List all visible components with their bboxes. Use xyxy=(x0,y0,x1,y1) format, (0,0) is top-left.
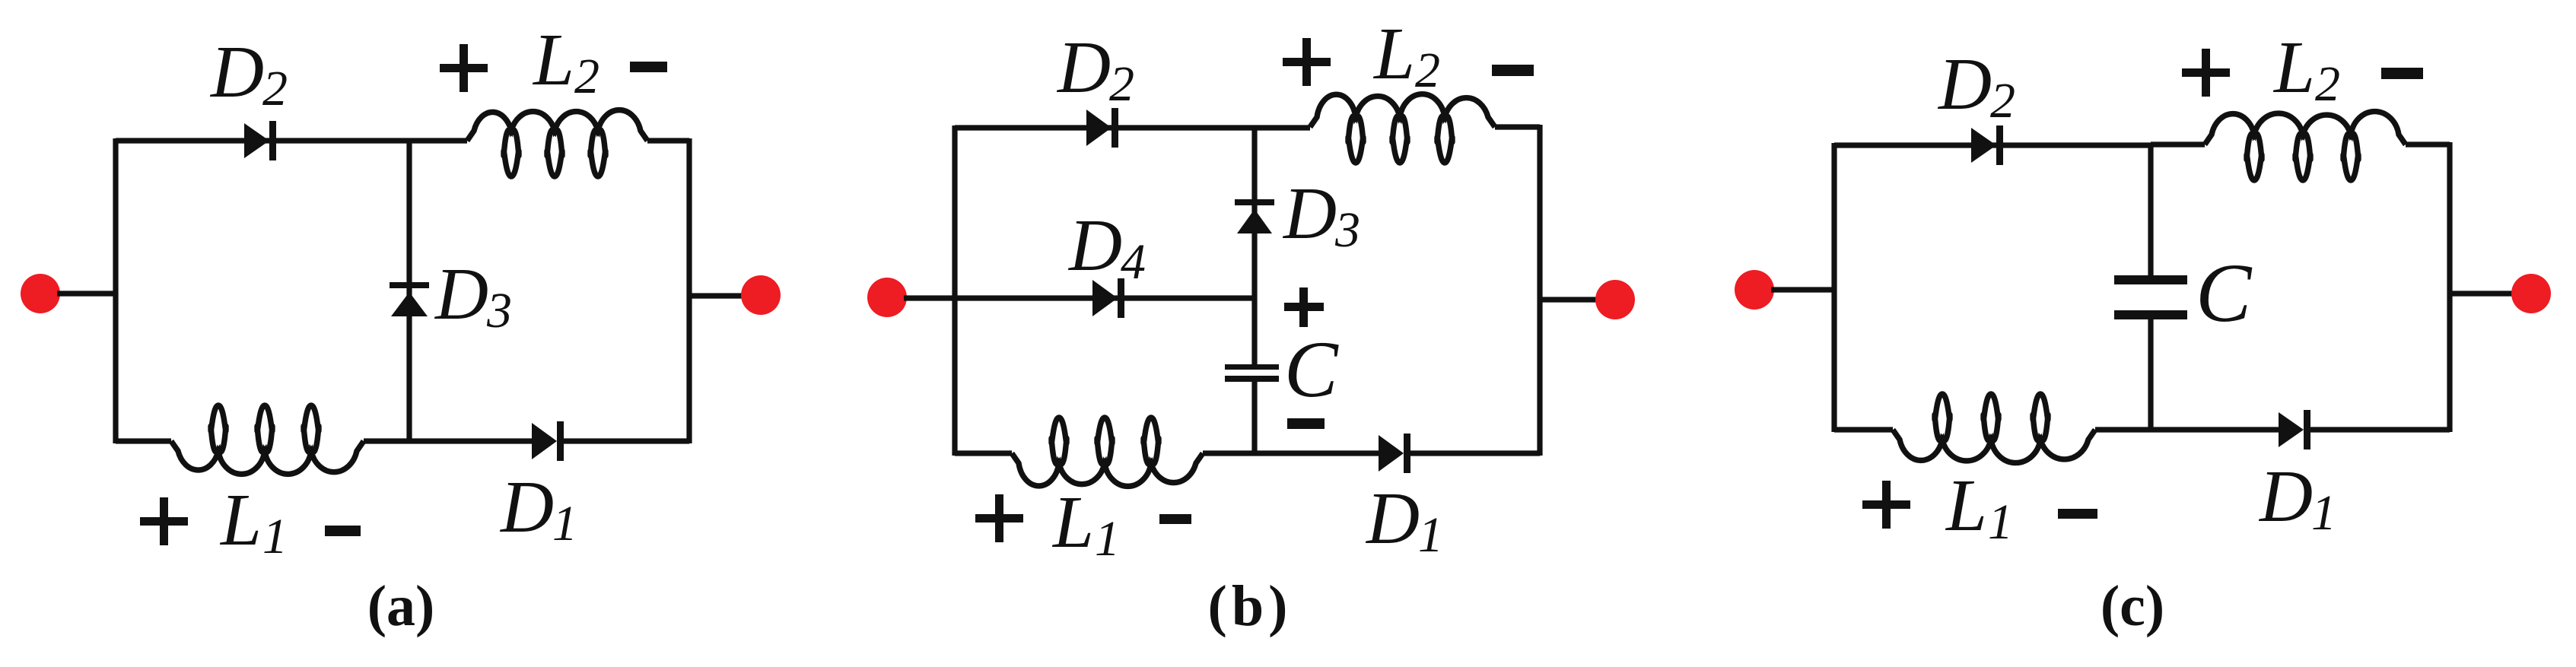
svg-text:4: 4 xyxy=(1121,234,1146,290)
svg-text:1: 1 xyxy=(262,509,288,564)
inductor L2 (c) xyxy=(2205,112,2406,180)
label - polarity of L2 (a) xyxy=(630,62,667,72)
wire middle vertical upper (c) xyxy=(2148,145,2153,276)
wire right vertical (a) xyxy=(686,138,692,443)
caption (a) xyxy=(367,574,435,638)
svg-text:L: L xyxy=(219,479,262,561)
terminal node left (a) xyxy=(21,274,60,313)
wire top-right segment (c) xyxy=(2406,141,2450,147)
label - polarity of L2 (c) xyxy=(2381,68,2423,79)
label D1 (c) xyxy=(2258,456,2336,541)
label D2 (c) xyxy=(1937,43,2015,129)
label + polarity of L2 (c) xyxy=(2182,49,2230,97)
label L2 (a) xyxy=(532,19,599,104)
label C (b) xyxy=(1284,325,1339,414)
svg-text:L: L xyxy=(1051,481,1094,563)
label D3 (a) xyxy=(434,253,512,338)
wire bottom-left segment (b) xyxy=(955,450,1012,456)
label + polarity of L1 (a) xyxy=(140,497,188,545)
wire bottom-left segment (c) xyxy=(1834,427,1893,432)
diode D2 (b) xyxy=(1086,108,1118,148)
inductor L1 (b) xyxy=(1012,418,1203,486)
wire middle vertical lower (c) xyxy=(2148,319,2153,430)
wire left vertical (c) xyxy=(1831,143,1837,432)
svg-text:1: 1 xyxy=(2311,485,2336,541)
wire right vertical (c) xyxy=(2447,142,2452,432)
wire top-mid segment (c) xyxy=(2151,141,2205,147)
wire bottom-left segment (a) xyxy=(116,438,171,443)
label + polarity of L2 (b) xyxy=(1283,38,1331,86)
terminal node right (b) xyxy=(1595,280,1635,319)
terminal node left (b) xyxy=(867,278,907,317)
diode D4 (b) xyxy=(1092,278,1124,318)
wire left vertical (b) xyxy=(952,125,957,456)
wire left stub + D4 row (b) xyxy=(904,295,1255,300)
inductor L2 (b) xyxy=(1310,94,1495,163)
label - polarity of C (b) xyxy=(1287,418,1325,429)
label D1 (a) xyxy=(499,466,577,551)
label D3 (b) xyxy=(1282,173,1360,258)
wire top-left segment (c) xyxy=(1834,142,2151,148)
svg-text:C: C xyxy=(1284,325,1339,414)
label - polarity of L1 (b) xyxy=(1159,514,1191,524)
label D2 (b) xyxy=(1056,27,1134,112)
svg-text:L: L xyxy=(532,19,574,100)
svg-text:1: 1 xyxy=(552,496,577,551)
label L2 (b) xyxy=(1372,13,1440,98)
wire top-left segment (a) xyxy=(116,138,467,143)
wire top-right segment (b) xyxy=(1495,124,1540,129)
label + polarity of L1 (b) xyxy=(975,494,1023,542)
capacitor C (b) xyxy=(1225,364,1279,382)
svg-text:3: 3 xyxy=(486,283,512,338)
svg-text:2: 2 xyxy=(1990,73,2015,129)
label + polarity of C (b) xyxy=(1284,287,1324,327)
capacitor C (c) xyxy=(2114,275,2187,319)
svg-text:(c): (c) xyxy=(2101,574,2164,638)
label L1 (b) xyxy=(1051,481,1120,567)
svg-text:2: 2 xyxy=(1109,56,1134,112)
inductor L2 (a) xyxy=(467,110,647,176)
label L2 (c) xyxy=(2272,27,2340,112)
terminal node right (c) xyxy=(2511,274,2551,313)
wire right vertical (b) xyxy=(1537,125,1542,456)
svg-text:3: 3 xyxy=(1334,202,1360,258)
svg-text:D: D xyxy=(1282,173,1337,254)
wire middle vertical upper (b) xyxy=(1251,128,1257,365)
diode D1 (c) xyxy=(2279,410,2310,449)
wire bottom-mid segment (c) xyxy=(2095,427,2279,432)
wire right stub (a) xyxy=(689,293,744,298)
wire right stub (b) xyxy=(1540,297,1598,302)
label D4 (b) xyxy=(1067,205,1146,290)
label - polarity of L2 (b) xyxy=(1492,65,1534,76)
diode D2 (a) xyxy=(244,121,276,160)
inductor L1 (a) xyxy=(171,405,364,474)
wire bottom-right segment (b) xyxy=(1410,450,1540,456)
wire bottom-mid segment (a) xyxy=(364,438,532,443)
svg-text:L: L xyxy=(1945,465,1987,546)
wire bottom-right segment (a) xyxy=(564,438,689,443)
label C (c) xyxy=(2196,246,2253,339)
diode D3 (b) xyxy=(1235,199,1274,233)
label L1 (c) xyxy=(1945,465,2013,550)
wire top-right segment (a) xyxy=(647,138,689,143)
svg-text:2: 2 xyxy=(2315,56,2340,112)
wire bottom-right segment (c) xyxy=(2310,427,2450,432)
wire top-left segment (b) xyxy=(955,125,1310,130)
svg-text:D: D xyxy=(2258,456,2313,537)
caption (b) xyxy=(1208,574,1293,638)
label - polarity of L1 (a) xyxy=(325,526,361,536)
terminal node right (a) xyxy=(741,275,781,315)
wire left stub (c) xyxy=(1771,287,1834,292)
svg-text:L: L xyxy=(1372,13,1415,94)
svg-text:2: 2 xyxy=(262,61,288,116)
wire right stub (c) xyxy=(2450,291,2514,296)
svg-text:D: D xyxy=(434,253,488,335)
svg-text:2: 2 xyxy=(1415,43,1440,98)
svg-text:D: D xyxy=(1365,478,1420,559)
svg-text:1: 1 xyxy=(1988,494,2013,550)
wire left stub (a) xyxy=(57,291,116,296)
wire left vertical (a) xyxy=(113,138,118,443)
label L1 (a) xyxy=(219,479,288,564)
wire middle vertical (a) xyxy=(406,141,412,441)
diode D1 (a) xyxy=(532,421,564,461)
diode D1 (b) xyxy=(1379,434,1410,473)
svg-text:D: D xyxy=(209,31,264,113)
label + polarity of L1 (c) xyxy=(1862,481,1910,529)
svg-text:2: 2 xyxy=(574,49,599,104)
label - polarity of L1 (c) xyxy=(2058,509,2097,519)
svg-text:D: D xyxy=(1056,27,1111,108)
caption (c) xyxy=(2101,574,2164,638)
svg-text:L: L xyxy=(2272,27,2315,108)
diode D2 (c) xyxy=(1971,125,2003,165)
svg-text:C: C xyxy=(2196,246,2253,339)
label + polarity of L2 (a) xyxy=(440,44,488,92)
terminal node left (c) xyxy=(1735,270,1774,310)
svg-text:D: D xyxy=(1937,43,1992,125)
svg-text:(b): (b) xyxy=(1208,574,1293,638)
label D1 (b) xyxy=(1365,478,1443,563)
wire bottom-mid segment (b) xyxy=(1203,450,1379,456)
svg-text:(a): (a) xyxy=(367,574,435,638)
svg-text:1: 1 xyxy=(1418,507,1443,563)
svg-text:D: D xyxy=(1067,205,1122,286)
wire middle vertical lower (b) xyxy=(1251,381,1257,453)
svg-text:D: D xyxy=(499,466,554,548)
diode D3 (a) xyxy=(390,282,429,316)
label D2 (a) xyxy=(209,31,288,116)
inductor L1 (c) xyxy=(1893,394,2095,463)
svg-text:1: 1 xyxy=(1095,511,1120,567)
